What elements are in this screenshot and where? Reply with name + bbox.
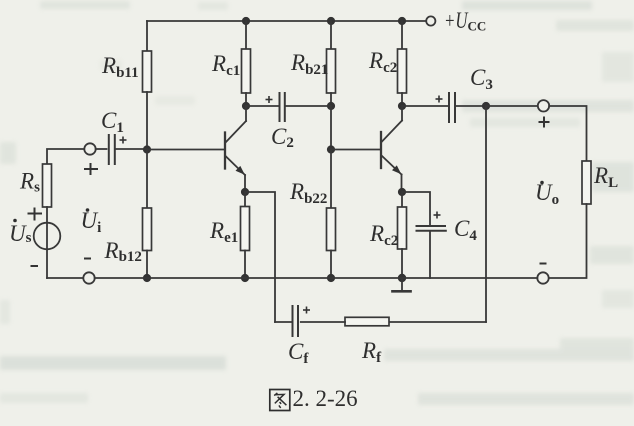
polarity plus C2 <box>266 96 273 103</box>
node Re1 ground <box>241 274 249 282</box>
capacitor C3 <box>449 93 455 122</box>
ground <box>393 278 411 291</box>
node Rb12 ground <box>143 274 151 282</box>
wire Rb22 top <box>330 149 332 208</box>
terminal output top <box>538 100 549 111</box>
resistor Rf <box>345 317 389 326</box>
wire Rc1 bottom <box>245 93 247 106</box>
resistor Re2 <box>398 207 407 249</box>
svg-text:+U: +U <box>444 8 469 33</box>
wire C2 left <box>246 105 279 107</box>
node Rb22 ground <box>327 274 335 282</box>
wire input circle to C1 <box>96 148 107 150</box>
svg-text:CC: CC <box>468 19 487 34</box>
svg-text:2. 2-26: 2. 2-26 <box>293 386 358 411</box>
resistor Re1 <box>241 207 250 251</box>
wire base Q1 <box>147 149 224 151</box>
wire C2 right <box>286 105 331 107</box>
wire base Q2 <box>331 149 380 151</box>
wire Rf to Cf <box>301 321 345 323</box>
resistor Rb12 <box>143 208 152 251</box>
node emitter Q1 <box>241 188 249 196</box>
polarity plus Uo <box>539 117 550 128</box>
terminal +UCC <box>426 16 435 25</box>
node C2 / Rb21 <box>327 102 335 110</box>
wire top supply rail <box>147 20 426 22</box>
wire Rc1 top <box>245 21 247 49</box>
resistor Rc1 <box>242 49 251 93</box>
polarity plus Us <box>28 208 43 221</box>
polarity minus Us <box>31 265 39 267</box>
polarity minus Ui <box>84 258 91 260</box>
capacitor C1 <box>109 135 115 164</box>
wire emitter Q1 to feedback <box>245 192 275 322</box>
node Re2 ground <box>398 274 406 282</box>
wire RL bottom <box>549 204 587 278</box>
source Us <box>34 223 61 250</box>
transistor Q2 <box>381 106 402 192</box>
node base Q2 <box>327 145 335 153</box>
polarity plus Ui <box>84 163 98 175</box>
label Uo <box>535 180 559 208</box>
wire Rc2 bottom <box>401 93 403 106</box>
wire output node to terminal <box>486 105 538 107</box>
resistor Rc2 <box>398 49 407 93</box>
resistor Rb11 <box>143 51 152 92</box>
wire Rb22 bottom <box>330 251 332 279</box>
wire C3 left <box>402 105 448 107</box>
polarity plus Cf <box>303 307 310 314</box>
wire Re1 bottom <box>244 251 246 279</box>
label Ui <box>81 208 102 236</box>
resistor Rs <box>43 164 52 207</box>
wire Rb21 bottom <box>330 93 332 106</box>
wire feedback vertical right <box>485 106 487 322</box>
node top of Rc1 <box>242 17 250 25</box>
polarity plus C1 <box>120 137 127 144</box>
wire Rb12 top <box>146 149 148 208</box>
node collector Q2 <box>398 102 406 110</box>
wire Rb21 node to base node <box>330 106 332 149</box>
wire Re2 top <box>401 192 403 207</box>
polarity plus C3 <box>436 96 443 103</box>
node top of Rc2 <box>398 17 406 25</box>
node output <box>482 102 490 110</box>
wire Rb12 bottom <box>146 251 148 279</box>
node collector Q1 <box>242 102 250 110</box>
wire Re1 top <box>244 192 246 207</box>
wire bottom rail main <box>95 277 538 279</box>
resistor Rb21 <box>327 49 336 93</box>
wire Rc2 top <box>401 21 403 49</box>
transistor Q1 <box>225 106 246 192</box>
wire emitter Q2 to C4 <box>402 192 430 225</box>
node emitter Q2 <box>398 188 406 196</box>
wire C1 to base node <box>116 148 147 150</box>
capacitor C4 <box>417 226 446 231</box>
capacitor C2 <box>280 93 285 121</box>
node base Q1 / C1 <box>143 145 151 153</box>
wire feedback to Rf <box>389 321 486 323</box>
label Us <box>9 219 32 246</box>
polarity minus Uo <box>540 263 547 265</box>
resistor RL <box>582 161 591 204</box>
wire Cf left <box>275 321 292 323</box>
wire source Rs top <box>47 149 84 164</box>
resistor Rb22 <box>327 208 336 251</box>
wire Rb11 top <box>146 21 148 51</box>
polarity plus C4 <box>434 212 441 219</box>
terminal input bottom <box>83 272 94 283</box>
wire bottom rail left <box>47 277 83 279</box>
wire output terminal to RL <box>549 106 586 161</box>
terminal output bottom <box>537 272 548 283</box>
wire Rb21 top <box>330 21 332 49</box>
capacitor Cf <box>293 306 299 336</box>
caption figure number <box>270 386 358 411</box>
wire C3 right to output node <box>456 105 486 107</box>
wire Rs to Us <box>46 207 48 278</box>
wire C4 bottom <box>429 232 431 278</box>
node top of Rb21 <box>327 17 335 25</box>
terminal input top <box>84 143 95 154</box>
wire Rb11 bottom to input node <box>146 92 148 149</box>
wire Re2 bottom <box>401 249 403 278</box>
